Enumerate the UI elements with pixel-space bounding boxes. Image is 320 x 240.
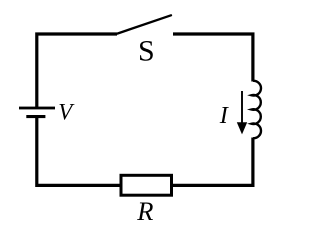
wire: top-right horizontal + right upper vertical (switch to inductor)	[173, 34, 253, 82]
svg-text:I: I	[219, 102, 230, 129]
svg-text:V: V	[58, 99, 75, 124]
battery V: long plate (+)	[19, 107, 55, 110]
battery V: short plate (-)	[26, 115, 45, 118]
svg-text:S: S	[138, 35, 155, 68]
svg-text:R: R	[136, 196, 153, 226]
resistor R (box)	[121, 175, 172, 195]
switch S (open arm)	[117, 15, 171, 33]
inductor coil	[251, 81, 261, 138]
wire: bottom-left horizontal + left lower vertical (resistor to battery - terminal)	[37, 116, 120, 185]
wire: left upper vertical + top-left horizontal (battery + terminal to switch hinge)	[37, 34, 117, 108]
current arrow I (pointing down)	[237, 91, 247, 134]
wire: right lower vertical + bottom-right horizontal (inductor to resistor)	[173, 138, 253, 186]
